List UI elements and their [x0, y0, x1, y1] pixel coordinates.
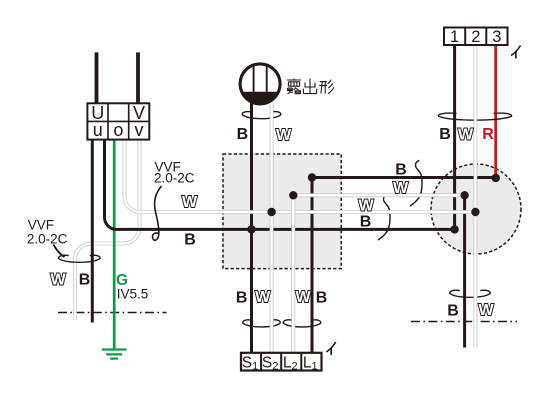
cable tie at lamp: [242, 112, 281, 119]
svg-text:B: B: [316, 290, 328, 307]
svg-text:o: o: [113, 120, 123, 140]
svg-text:B: B: [79, 272, 91, 289]
svg-text:u: u: [93, 120, 103, 140]
wire terminal 1 black vertical: [453, 45, 456, 229]
svg-text:VVF: VVF: [28, 218, 54, 233]
svg-text:W: W: [255, 289, 271, 306]
cable tie strip right: [283, 320, 321, 327]
wire B1 black (u terminal down): [91, 140, 94, 323]
svg-text:2: 2: [471, 28, 480, 46]
junction dot black down: [460, 191, 468, 199]
wire W right horizontal (JB1 to JB2): [293, 193, 464, 197]
junction dot lamp B x main B: [247, 225, 255, 233]
svg-text:W: W: [295, 289, 311, 306]
svg-text:W: W: [276, 127, 292, 144]
svg-text:3: 3: [492, 28, 501, 46]
cable tie top right: [438, 113, 511, 120]
svg-text:v: v: [135, 120, 144, 140]
junction dot L2 white: [289, 191, 297, 199]
cable tie strip left: [243, 320, 281, 327]
red wire to terminal 3: [494, 45, 497, 178]
lamp wire W white: [270, 95, 274, 353]
pointer line VVF left: [54, 245, 65, 258]
wire terminal 2 white vertical: [473, 45, 477, 348]
cable tie left cable: [59, 255, 101, 262]
svg-text:2.0-2C: 2.0-2C: [154, 171, 195, 186]
svg-text:W: W: [50, 272, 66, 289]
svg-text:2.0-2C: 2.0-2C: [27, 231, 68, 246]
svg-text:B: B: [439, 126, 451, 143]
junction dot lamp W x W1: [267, 208, 275, 216]
junction box JB1 (dashed square outlet box): [223, 154, 341, 269]
svg-text:B: B: [237, 126, 249, 143]
transformer primary wire U: [95, 52, 99, 104]
svg-text:IV5.5: IV5.5: [117, 287, 149, 302]
junction dot L1 black: [308, 173, 316, 181]
svg-text:W: W: [358, 198, 374, 215]
wire L1 black (JB1 to L1): [311, 178, 314, 353]
wire W2 white (v terminal to lower-left): [75, 140, 140, 320]
pointer curve VVF right: [153, 186, 162, 240]
junction dot red joint: [492, 174, 500, 182]
wire B right horizontal (JB1 to red joint): [312, 176, 496, 179]
svg-text:B: B: [360, 214, 372, 231]
svg-text:1: 1: [450, 28, 459, 46]
svg-text:B: B: [184, 232, 196, 249]
ground symbol: [102, 350, 127, 359]
terminal block 1 2 3: [444, 28, 508, 47]
cable tie bottom right: [450, 290, 491, 297]
cable tie vertical right (around B/W to JB2): [410, 160, 422, 206]
ground wire G green: [113, 140, 116, 350]
center line left (dash-dot): [58, 312, 167, 314]
svg-text:W: W: [393, 180, 409, 197]
svg-text:W: W: [478, 302, 494, 319]
transformer terminal block UVuov: [87, 103, 149, 140]
wire W1 white (o terminal to JB2): [125, 140, 476, 212]
transformer primary wire V: [136, 52, 140, 104]
wire L2 white (JB1 to L2): [291, 195, 295, 352]
svg-text:W: W: [458, 127, 474, 144]
junction dot terminal1 x main B: [450, 225, 458, 233]
junction dot terminal2 x W1: [471, 208, 479, 216]
svg-text:B: B: [447, 303, 459, 320]
wire black down from JB2: [463, 195, 466, 347]
center line right (dash-dot): [411, 321, 517, 323]
svg-text:W: W: [182, 194, 198, 211]
svg-text:R: R: [482, 126, 494, 143]
label イ bottom: [326, 342, 336, 355]
lamp (exposed ceiling rosette): [240, 64, 280, 104]
label 露出形 (kanji drawn as paths): [287, 79, 334, 94]
cable tie vertical mid (around W1/B2): [378, 194, 390, 240]
terminal strip S1 S2 L2 L1: [241, 353, 322, 373]
svg-text:B: B: [395, 162, 407, 179]
label イ top right: [511, 46, 521, 59]
junction box JB2 (dashed circle box): [431, 164, 521, 254]
wire B2 main black (power to JB2, via bend): [105, 140, 455, 230]
lamp wire B black: [250, 95, 253, 353]
svg-text:B: B: [236, 290, 248, 307]
